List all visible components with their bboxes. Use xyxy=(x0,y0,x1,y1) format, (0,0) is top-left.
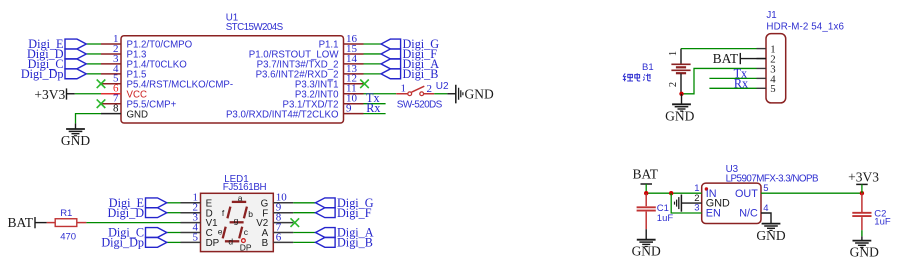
U1 pin 6 stub xyxy=(101,93,121,95)
svg-text:g: g xyxy=(234,215,239,225)
wire junction to U3 pin 3 (EN) xyxy=(671,193,702,213)
net flag Digi_G (LED1) xyxy=(316,198,336,208)
wire +3V3 to U1 pin 6 (VCC) xyxy=(75,93,101,95)
wire Digi_C to U1 pin 3 xyxy=(86,63,101,65)
wire Tx at U1 pin 10 xyxy=(364,103,386,105)
U2 switch lever xyxy=(412,86,425,92)
svg-text:9: 9 xyxy=(346,103,352,115)
wire R1 to LED1 pin 3 (V1) xyxy=(86,222,180,224)
IC U1 body (STC15W204S MCU) xyxy=(121,36,344,123)
wire LED1 to Digi_F xyxy=(293,212,315,214)
svg-text:GND: GND xyxy=(61,133,90,148)
resistor R1 body xyxy=(55,219,77,227)
net flag Digi_Dp (LED1) xyxy=(146,238,167,248)
U1 pin 15 stub xyxy=(344,53,364,55)
LED1 pin 10 stub xyxy=(273,202,293,204)
svg-text:Digi_B: Digi_B xyxy=(337,236,373,250)
svg-text:Rx: Rx xyxy=(734,77,748,91)
svg-text:1: 1 xyxy=(668,51,679,56)
svg-text:6: 6 xyxy=(276,231,282,243)
svg-text:BAT: BAT xyxy=(7,215,33,230)
junction at B1 pin 2 / ground xyxy=(679,92,683,96)
svg-text:1: 1 xyxy=(400,82,406,94)
ground bars (U2) xyxy=(459,88,463,100)
net flag Digi_C (LED1) xyxy=(146,228,167,238)
connector J1 body xyxy=(766,34,786,103)
J1 pin 1 stub xyxy=(757,48,767,50)
wire U3 pin 5 (OUT) to +3V3 xyxy=(761,192,862,194)
svg-text:Digi_Dp: Digi_Dp xyxy=(21,67,64,81)
U1 pin 11 stub xyxy=(344,93,364,95)
net flag Digi_D (LED1) xyxy=(146,208,167,218)
LED1 pin 3 stub xyxy=(181,222,201,224)
wire U1 pin 15 to Digi_F xyxy=(364,53,382,55)
wire BAT to R1 xyxy=(35,222,47,224)
U1 pin 1 stub xyxy=(101,43,121,45)
no-connect X on LED1 pin 8 xyxy=(291,218,300,227)
wire C2 to ground xyxy=(861,230,863,236)
svg-text:1uF: 1uF xyxy=(657,213,674,224)
wire BAT down to junction xyxy=(645,184,647,193)
power flag +3V3 lead xyxy=(67,93,75,95)
wire U1 pin 8 to ground xyxy=(76,114,102,124)
U1 pin 14 stub xyxy=(344,63,364,65)
no-connect X on U1 pin 12 xyxy=(360,80,369,89)
U1 pin 3 stub xyxy=(101,63,121,65)
U1 pin 13 stub xyxy=(344,73,364,75)
wire Digi_D to U1 pin 2 xyxy=(86,53,101,55)
net flag Digi_Dp xyxy=(65,69,86,79)
svg-text:P3.0/RXD/INT4#/T2CLKO: P3.0/RXD/INT4#/T2CLKO xyxy=(226,109,339,120)
wire U3 pin 2 (GND) to ground xyxy=(681,202,701,204)
svg-text:GND: GND xyxy=(850,244,879,259)
ground stem below U1 pin 8 xyxy=(75,123,77,129)
U3 pin 1 indicator dot xyxy=(705,187,708,190)
wire Digi_Dp to LED1 xyxy=(167,241,181,243)
U1 pin 12 stub xyxy=(344,83,364,85)
U1 pin 16 stub xyxy=(344,43,364,45)
svg-text:N/C: N/C xyxy=(739,208,758,220)
svg-text:5: 5 xyxy=(770,83,775,95)
net flag Digi_B (LED1) xyxy=(316,238,336,248)
svg-text:B: B xyxy=(262,238,269,249)
tall ground bar (U2) xyxy=(455,85,457,104)
net flag Digi_F (LED1) xyxy=(316,208,336,218)
U1 pin 5 stub xyxy=(101,83,121,85)
capacitor C2 plates xyxy=(852,213,871,216)
wire U1 pin 11 to U2 xyxy=(364,93,397,95)
svg-text:d: d xyxy=(228,237,233,247)
B1 value label (Chinese: lithium battery) xyxy=(623,73,651,81)
net flag Digi_A (LED1) xyxy=(316,228,336,238)
regulator U3 body xyxy=(702,183,761,223)
svg-text:1uF: 1uF xyxy=(874,216,891,227)
svg-text:SW-520DS: SW-520DS xyxy=(397,100,443,111)
wire LED1 to Digi_G xyxy=(293,202,315,204)
wire J1 pin 3 to B1 pin 2 / ground xyxy=(683,68,757,93)
power flag +3V3 bar (U3) xyxy=(856,183,868,185)
wire LED1 to Digi_A xyxy=(293,232,315,234)
ground GND (C2) xyxy=(853,241,872,248)
no-connect X on U1 pin 5 xyxy=(97,80,106,89)
net flag Digi_E (LED1) xyxy=(146,198,167,208)
power flag +3V3 bar xyxy=(66,88,68,99)
svg-text:8: 8 xyxy=(113,103,119,115)
wire Digi_E to U1 pin 1 xyxy=(86,43,101,45)
U1 pin 10 stub xyxy=(344,103,364,105)
svg-text:a: a xyxy=(238,193,243,203)
svg-text:EN: EN xyxy=(706,208,721,220)
wire U2 pin 2 to ground xyxy=(434,93,447,95)
U1 pin 4 stub xyxy=(101,73,121,75)
power flag BAT bar (R1) xyxy=(34,217,36,228)
wire Digi_Dp to U1 pin 4 xyxy=(86,73,101,75)
svg-text:Rx: Rx xyxy=(366,101,380,115)
svg-text:J1: J1 xyxy=(766,10,776,21)
J1 pin 2 stub xyxy=(757,58,767,60)
ground lead (U2) xyxy=(447,93,456,95)
wire Rx at U1 pin 9 xyxy=(364,113,386,115)
LED1 decimal point circle xyxy=(242,239,246,243)
wire BAT to J1 pin 2 xyxy=(740,58,766,60)
U1 pin 9 stub xyxy=(344,113,364,115)
display LED1 body (7-segment) xyxy=(201,193,274,251)
svg-text:5: 5 xyxy=(763,183,768,194)
svg-text:Digi_F: Digi_F xyxy=(337,206,372,220)
U2 pin 1 lead xyxy=(396,93,408,95)
ground GND (C1) xyxy=(637,240,656,247)
svg-text:GND: GND xyxy=(756,228,785,243)
svg-text:3: 3 xyxy=(694,203,699,214)
junction at C1 / BAT xyxy=(644,191,648,195)
svg-text:GND: GND xyxy=(127,109,149,120)
ground stem (B1) xyxy=(681,94,683,104)
ground bars (U3 pin 2) xyxy=(675,197,679,209)
svg-text:U2: U2 xyxy=(436,81,449,92)
LED1 pin 1 stub xyxy=(181,202,201,204)
wire Rx at J1 pin 5 xyxy=(709,87,756,89)
svg-text:2: 2 xyxy=(668,82,679,87)
svg-text:BAT: BAT xyxy=(632,167,658,182)
svg-text:+3V3: +3V3 xyxy=(34,87,65,102)
capacitor C1 bottom lead xyxy=(645,212,647,230)
wire U1 pin 14 to Digi_A xyxy=(364,63,382,65)
junction at EN branch xyxy=(669,191,673,195)
R1 right lead xyxy=(77,222,87,224)
tall ground bar (U3 pin 2) xyxy=(680,195,682,212)
svg-text:5: 5 xyxy=(193,231,199,243)
wire U1 pin 13 to Digi_B xyxy=(364,73,382,75)
battery B1 plates xyxy=(671,64,690,73)
ground GND (U1 pin 8) xyxy=(66,129,85,136)
J1 pin 4 stub xyxy=(757,77,767,79)
wire Tx at J1 pin 4 xyxy=(709,77,756,79)
wire LED1 to Digi_B xyxy=(293,241,315,243)
svg-text:OUT: OUT xyxy=(735,188,758,200)
net flag Digi_C xyxy=(65,59,86,69)
svg-text:GND: GND xyxy=(465,86,494,101)
svg-text:GND: GND xyxy=(665,108,694,123)
svg-text:470: 470 xyxy=(60,231,76,242)
LED1 pin 6 stub xyxy=(273,241,293,243)
U2 terminal circle pin 2 xyxy=(420,92,424,96)
svg-text:Digi_B: Digi_B xyxy=(403,67,439,81)
junction at C2 / +3V3 xyxy=(860,191,864,195)
power flag BAT bar (J1) xyxy=(739,53,741,64)
U2 pin 2 lead xyxy=(424,93,435,95)
B1 pin 2 lead xyxy=(680,74,682,94)
capacitor C2 bottom lead xyxy=(861,217,863,230)
svg-text:GND: GND xyxy=(632,244,661,259)
J1 pin 3 stub xyxy=(757,67,767,69)
U1 pin 8 stub xyxy=(101,113,121,115)
LED1 seven-segment digit xyxy=(223,202,247,241)
net flag Digi_D xyxy=(65,49,86,59)
capacitor C2 top lead xyxy=(861,193,863,212)
svg-text:b: b xyxy=(248,209,253,219)
R1 left lead xyxy=(47,222,55,224)
U1 pin 7 stub xyxy=(101,103,121,105)
svg-text:2: 2 xyxy=(427,83,433,95)
net flag Digi_G xyxy=(381,39,401,49)
net flag Digi_F xyxy=(381,49,401,59)
U2 terminal circle pin 1 xyxy=(408,92,412,96)
LED1 pin 2 stub xyxy=(181,212,201,214)
capacitor C1 top lead xyxy=(645,193,647,206)
net flag Digi_B xyxy=(381,69,401,79)
U1 pin 2 stub xyxy=(101,53,121,55)
ground GND (B1) xyxy=(672,104,691,111)
svg-text:STC15W204S: STC15W204S xyxy=(226,22,284,33)
svg-text:DP: DP xyxy=(206,238,220,249)
svg-text:e: e xyxy=(218,227,223,237)
LED1 pin 8 stub xyxy=(273,222,293,224)
no-connect X on U1 pin 7 xyxy=(97,99,106,108)
wire BAT to U3 pin 1 (IN) xyxy=(646,192,702,194)
net flag Digi_E xyxy=(65,39,86,49)
svg-text:R1: R1 xyxy=(60,208,72,219)
LED1 pin 7 stub xyxy=(273,232,293,234)
ground stem (C2) xyxy=(861,236,863,240)
svg-text:FJ5161BH: FJ5161BH xyxy=(223,182,267,193)
wire +3V3 down to junction xyxy=(861,184,863,193)
LED1 pin 9 stub xyxy=(273,212,293,214)
wire B1 pin 1 to J1 pin 1 xyxy=(681,48,757,50)
ground stem (C1) xyxy=(645,229,647,239)
wire Digi_C to LED1 xyxy=(167,232,181,234)
svg-text:Digi_Dp: Digi_Dp xyxy=(101,236,144,250)
svg-text:+3V3: +3V3 xyxy=(848,170,879,185)
wire Digi_D to LED1 xyxy=(167,212,181,214)
power flag BAT bar (U3) xyxy=(641,183,653,185)
svg-text:BAT: BAT xyxy=(713,51,739,66)
B1 pin 1 lead xyxy=(680,49,682,64)
svg-text:DP: DP xyxy=(240,242,252,252)
J1 pin 5 stub xyxy=(757,87,767,89)
wire U3 pin 4 (N/C) to ground xyxy=(761,213,771,223)
net flag Digi_A xyxy=(381,59,401,69)
LED1 pin 5 stub xyxy=(181,241,201,243)
LED1 pin 4 stub xyxy=(181,232,201,234)
wire Digi_E to LED1 xyxy=(167,202,181,204)
ground GND (U3 pin 4) xyxy=(762,224,781,231)
svg-text:Digi_D: Digi_D xyxy=(107,206,144,220)
wire U1 pin 16 to Digi_G xyxy=(364,43,382,45)
svg-text:HDR-M-2 54_1x6: HDR-M-2 54_1x6 xyxy=(766,21,844,32)
svg-text:B1: B1 xyxy=(642,62,654,73)
capacitor C1 plates xyxy=(637,207,656,210)
svg-text:c: c xyxy=(244,227,249,237)
